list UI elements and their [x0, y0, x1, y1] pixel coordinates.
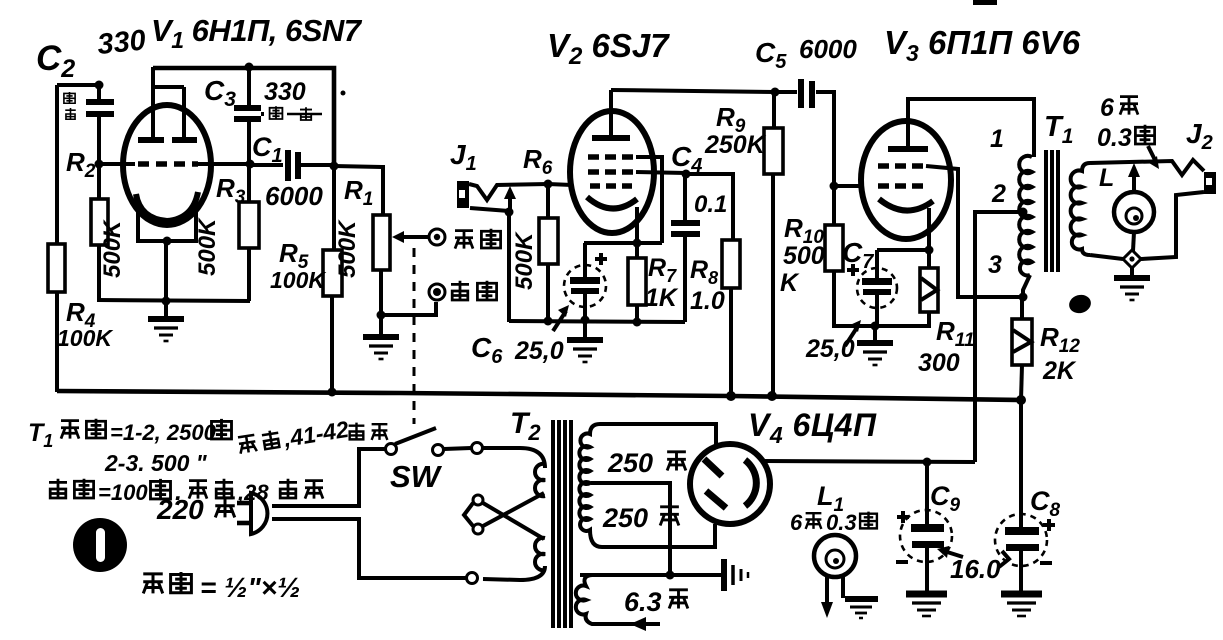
wire: HV center tap: [591, 483, 670, 575]
svg-text:2: 2: [991, 180, 1006, 208]
wire: C1 node to R1: [334, 166, 383, 215]
node: R5 rail junction: [328, 388, 337, 397]
svg-text:25,0: 25,0: [805, 335, 855, 363]
switch SW right contact: [472, 443, 483, 454]
svg-text:250: 250: [607, 448, 653, 478]
wire: C5 to V3 grid: [816, 92, 861, 186]
wire: HV top to V4 plate: [600, 424, 716, 446]
wire: V4 cathode B+ output: [763, 461, 975, 462]
node: J1 sleeve junction: [505, 208, 514, 217]
wire: C1 right to R5 column: [301, 163, 334, 167]
wire: R6 top lead: [546, 184, 550, 218]
V1 anode bars: [138, 137, 164, 143]
capacitor C2 plates: [86, 99, 114, 105]
svg-text:6: 6: [790, 510, 803, 535]
L1 left lead with arrow: [825, 576, 829, 604]
pilot lamp L: [1114, 192, 1154, 232]
arrow: 25,0 pointer to C6: [553, 311, 566, 331]
resistor R1 (volume pot): [373, 215, 390, 270]
capacitor C2 lead: [97, 85, 101, 99]
svg-text:6.3: 6.3: [624, 587, 662, 617]
wire: node to C1: [250, 163, 283, 167]
T2 bottom contact: [467, 573, 478, 584]
wire: suppressor tie to cathode: [636, 157, 662, 243]
node: speaker common diamond junction: [1123, 250, 1141, 268]
T2 primary bottom lead: [483, 566, 545, 580]
svg-text:0.1: 0.1: [694, 191, 727, 218]
V3 screen grid dashes: [878, 163, 926, 169]
capacitor C3 lead from rail: [247, 67, 251, 106]
J1 tip contact hook wire to R6 node: [469, 184, 548, 200]
wire: V3 anode lead to T1: [908, 99, 1034, 157]
wire: heater/ground bus: [580, 573, 722, 577]
jack J1 body: [457, 181, 469, 208]
svg-text:6: 6: [1100, 94, 1115, 122]
node: V3 grid / R10 junction: [830, 182, 839, 191]
node: R7 bottom: [633, 318, 642, 327]
T2 primary top lead: [483, 448, 545, 468]
wire: C4 bottom lead to bottom wire: [683, 237, 687, 322]
note line 1: T1 primary turns: [28, 419, 232, 451]
V3 anode bar: [888, 146, 928, 152]
wire: ground stem: [873, 326, 877, 340]
C9 polarity plus: [897, 511, 909, 523]
capacitor C1 plates: [285, 150, 291, 181]
note: wire gauge slanted: [237, 416, 350, 459]
resistor R6: [539, 218, 558, 264]
wire: T1 primary bottom to tap 3 node: [1023, 275, 1030, 297]
capacitor C9 plates (electrolytic): [911, 524, 944, 532]
svg-text:,28: ,28: [237, 480, 269, 505]
svg-text:V2 6SJ7: V2 6SJ7: [547, 27, 670, 70]
tube V2 envelope: [570, 111, 654, 233]
note: core size: [143, 572, 300, 603]
wire: R11 bottom to ground bus: [875, 312, 929, 326]
wire: C3 bottom to node: [247, 122, 251, 164]
node: C6 ground junction: [581, 316, 590, 325]
wire: ground stem J2: [1130, 268, 1134, 275]
wire: V1 left anode lead to top rail: [151, 67, 155, 140]
svg-text:=100: =100: [98, 480, 148, 505]
wire: R10 top lead: [832, 186, 836, 225]
V4 diode plate bars: [704, 459, 722, 476]
capacitor C6 top lead: [583, 243, 587, 278]
node: C9 junction on B+: [923, 458, 932, 467]
wire: left rail lower segment from R4 to bottom rail: [55, 292, 59, 392]
wire: R12 bottom to rail: [1021, 365, 1022, 400]
top edge mark: [973, 0, 997, 5]
V4 cathode arc: [745, 460, 756, 506]
note line 3: secondary turns: [49, 478, 323, 506]
capacitor C4 top lead: [683, 174, 687, 220]
wire: R2/R3 cathode bottom wire: [97, 300, 250, 301]
wire: ground stem C6: [583, 321, 587, 337]
wire: C7 bottom lead: [875, 295, 879, 326]
ground (V2 cathode circuit): [567, 340, 603, 362]
selector bracket: [464, 503, 473, 526]
arrow: 16.0 to C8: [999, 551, 1009, 567]
wire: R12 top lead: [1020, 297, 1024, 319]
wire: V3 cathode lead: [927, 208, 931, 250]
ground (speaker circuit): [1114, 278, 1150, 300]
svg-text:330: 330: [264, 78, 306, 106]
node: C1/R5/R1 junction: [330, 162, 339, 171]
svg-text:1K: 1K: [645, 284, 679, 312]
V2 anode bar: [592, 135, 630, 141]
wire: R10 bottom to ground bus: [834, 271, 875, 326]
node: C7/R10/R11 ground junction: [871, 322, 880, 331]
switch SW middle contact: [433, 445, 444, 456]
capacitor C8 top lead: [1019, 400, 1023, 528]
V1 cathode skirt: [138, 211, 196, 241]
V2 control grid dashes: [590, 183, 634, 189]
V2 cathode arc: [587, 197, 637, 209]
T2 6.3V winding: [576, 575, 598, 624]
wire: cathode to C7: [877, 248, 929, 252]
wire: C6 bottom lead: [583, 294, 587, 321]
R1 wiper arrow from red terminal: [398, 235, 428, 239]
C8 polarity minus: [1040, 561, 1052, 565]
C9 polarity minus: [896, 560, 908, 564]
wire: C9 bottom lead: [925, 548, 929, 593]
node: V2 cathode junction: [633, 239, 642, 248]
wire: R5 bottom to rail: [330, 296, 334, 392]
terminal: black binding post: [429, 284, 445, 300]
ink blob: [1067, 292, 1093, 315]
wire: cathode bus C6/R7: [584, 241, 662, 245]
pilot lamp L1: [814, 535, 856, 577]
wire: screen to T1 tap 3: [926, 166, 1022, 297]
capacitor C4 plates: [671, 220, 700, 226]
ground (V3 cathode circuit): [857, 343, 893, 365]
svg-text:L: L: [1099, 164, 1114, 192]
wire: C4 node to R8: [686, 174, 733, 240]
arrow: 6V 0.3A pointer: [1148, 146, 1156, 162]
wire: anode strap: [153, 85, 184, 89]
svg-text:V1 6Н1П, 6SN7: V1 6Н1П, 6SN7: [151, 13, 363, 53]
svg-text:100K: 100K: [57, 325, 113, 351]
wire: left rail upper segment down to R4: [55, 85, 59, 244]
capacitor C5 plates: [798, 79, 804, 108]
wire: V2 stage bottom wire: [509, 321, 685, 322]
wire: black terminal to R1 ground: [381, 302, 436, 315]
node: V2 anode / R9 / C5 junction: [771, 88, 780, 97]
T1 secondary winding: [1071, 163, 1090, 255]
svg-text:100K: 100K: [270, 267, 326, 293]
switch SW left contact: [386, 444, 397, 455]
wire: ground stem V1: [164, 301, 168, 316]
capacitor C6 plates (electrolytic): [570, 277, 600, 284]
wire: R9 bottom to rail: [771, 174, 775, 396]
plug prongs: [237, 501, 251, 506]
pilot lamp L arrow lead: [1132, 172, 1136, 191]
selector crossed wires: [483, 503, 544, 539]
svg-text:0.3: 0.3: [1097, 124, 1132, 152]
node: center tap ground junction: [666, 571, 675, 580]
svg-text:SW: SW: [390, 459, 443, 494]
wire: R7 bottom lead: [635, 305, 639, 322]
wire: secondary top to J2: [1090, 160, 1204, 175]
node: V1 cathode junction: [163, 237, 172, 246]
wire: R6 bottom lead: [546, 264, 550, 321]
C7 dashed outline: [857, 268, 897, 308]
wire: ground stem R1: [379, 315, 383, 334]
L1 right lead: [841, 576, 845, 598]
wire: V2 cathode lead: [635, 207, 639, 243]
label: black terminal text: [451, 281, 497, 300]
node: R8 rail junction: [726, 391, 736, 401]
voltage selector contacts: [473, 495, 483, 505]
wire: R3 top lead: [247, 164, 251, 202]
V1 grid dashed line: [138, 161, 198, 167]
wire: R3 bottom lead: [247, 248, 251, 301]
resistor R10: [825, 225, 843, 271]
svg-text:250: 250: [602, 503, 648, 533]
resistor R9: [764, 128, 783, 174]
terminal: red binding post: [429, 229, 445, 245]
jack J2 body: [1204, 172, 1216, 194]
C6 polarity plus: [595, 253, 607, 265]
ground (R1 / output common): [363, 337, 399, 359]
resistor R5: [323, 250, 342, 296]
T2 core laminations: [551, 420, 555, 628]
svg-text:.: .: [175, 478, 182, 506]
wire: C8 bottom lead: [1019, 551, 1023, 593]
ground (C9): [906, 594, 947, 616]
capacitor C7 plates (electrolytic): [862, 278, 892, 285]
resistor R7: [628, 258, 646, 305]
svg-text:6000: 6000: [265, 181, 323, 211]
capacitor C8 plates (electrolytic): [1005, 527, 1039, 535]
T1 core laminations: [1044, 150, 1048, 272]
ink speck: [341, 91, 346, 96]
svg-text:0.3: 0.3: [826, 510, 857, 535]
node: C2 top junction: [95, 81, 104, 90]
node: R6 bottom: [544, 317, 553, 326]
svg-text:K: K: [780, 269, 800, 297]
wire: R2 top lead: [97, 164, 101, 199]
wire: heater lead with arrow: [598, 622, 660, 626]
svg-text:2K: 2K: [1042, 357, 1077, 385]
node: C4 / screen junction: [682, 170, 691, 179]
T2 HV secondary winding: [579, 424, 602, 547]
J1 sleeve wire: [470, 208, 509, 322]
node: V3 cathode junction: [925, 246, 934, 255]
transformer T1 primary winding: [1019, 156, 1032, 276]
V3 control grid dashes: [878, 183, 926, 189]
capacitor C7 top lead: [875, 250, 879, 278]
wire: grid wire to V2: [548, 184, 572, 185]
main B+ bottom rail: [57, 391, 1021, 400]
wire: V2 anode to C5/R9 node: [611, 90, 775, 92]
wire: V1 right grid to C3 node: [198, 162, 250, 166]
wire: R8 bottom to rail: [729, 288, 733, 397]
svg-text:2-3. 500 ": 2-3. 500 ": [104, 450, 208, 476]
label: mica (yunmu) boxes for C2: [64, 92, 76, 119]
label: mica boxes for C3: [261, 106, 322, 120]
svg-text:500K: 500K: [99, 219, 126, 278]
node: R1 ground junction: [377, 311, 386, 320]
resistor R3: [239, 202, 259, 248]
svg-text:=1-2, 2500: =1-2, 2500: [110, 420, 217, 445]
wire: SW to T2 primary: [444, 448, 471, 449]
C8 polarity plus: [1043, 519, 1055, 531]
wire: HV bottom to V4 plate 2: [602, 524, 715, 547]
wire: mains cord upper: [272, 449, 385, 506]
C7 polarity plus: [847, 264, 859, 276]
capacitor C9 top lead: [925, 462, 929, 525]
wire: screen to C4 node: [636, 172, 686, 173]
label: red terminal text: [455, 229, 501, 249]
svg-text:300: 300: [918, 349, 960, 377]
V2 suppressor grid dashes: [588, 154, 636, 160]
C8 dashed outline: [995, 514, 1047, 566]
node: T1 tap 3 / R12 junction: [1019, 293, 1028, 302]
wire: R5 top lead: [332, 167, 336, 250]
V3 cathode arc: [879, 199, 933, 211]
T2 primary upper winding: [535, 464, 545, 496]
rectifier V4 envelope: [690, 444, 770, 524]
figure number badge: [73, 518, 127, 572]
wire: R7 top lead: [635, 243, 639, 258]
svg-text:V4 6Ц4П: V4 6Ц4П: [748, 407, 877, 448]
svg-text:3: 3: [988, 251, 1002, 279]
svg-text:6000: 6000: [799, 34, 857, 64]
capacitor C3 plates: [234, 105, 261, 111]
wire: mains cord lower: [272, 519, 466, 578]
wire: C5 left lead: [775, 90, 797, 94]
wire: R2 bottom lead: [97, 245, 101, 300]
node: R9 rail junction: [767, 391, 777, 401]
svg-text:25,0: 25,0: [514, 337, 564, 365]
svg-text:500K: 500K: [334, 219, 361, 278]
dashed mechanical link from R1 wiper to switch SW: [413, 248, 416, 424]
ground (L1): [845, 599, 878, 618]
resistor R4: [48, 244, 65, 292]
wire: R1 bottom lead: [379, 270, 383, 315]
arrow: 25,0 pointer to C7: [845, 326, 858, 346]
svg-text:500K: 500K: [194, 217, 221, 276]
C6 dashed outline: [564, 265, 606, 307]
switch SW lever: [395, 428, 436, 444]
svg-text:16.0: 16.0: [950, 554, 1001, 584]
node: rail end / C8 junction: [1016, 395, 1026, 405]
wire: cathode down to bottom wire: [164, 241, 168, 301]
node A: V1 grid / R2 / C2 junction: [95, 160, 104, 169]
wire: tap 2 to B+ riser: [975, 212, 1023, 462]
tube V1 envelope: [123, 105, 211, 225]
wire: lamp bottom lead: [1133, 232, 1134, 251]
V2 screen grid dashes: [588, 169, 636, 175]
wire: R9 top lead: [772, 92, 776, 128]
node: C3/C1/R3 junction: [246, 160, 255, 169]
wire: grid node to tube: [99, 162, 135, 166]
node: C3 top on rail: [245, 63, 254, 72]
svg-text:1: 1: [990, 125, 1004, 153]
svg-text:330: 330: [96, 24, 147, 61]
J2 sleeve wire: [1141, 192, 1204, 259]
svg-text:= ½"×½: = ½"×½: [200, 572, 300, 603]
T1 tap 2 node: [1019, 208, 1028, 217]
wire: V1 right anode lead: [182, 87, 186, 140]
node: cathode ground junction: [162, 297, 171, 306]
resistor R11: [920, 268, 938, 312]
ground (C8): [1001, 594, 1042, 616]
C9 dashed outline: [900, 510, 952, 562]
arrow: 16.0 to C9: [944, 551, 963, 557]
svg-text:500K: 500K: [511, 231, 538, 290]
V1 cathode arcs: [136, 192, 198, 221]
wire: secondary bottom to junction: [1090, 255, 1123, 259]
ground (V1 cathode): [148, 319, 184, 341]
resistor R8: [722, 240, 740, 288]
svg-text:1.0: 1.0: [690, 287, 725, 315]
wire: top rail to C3/R5 corner: [153, 68, 334, 167]
ground (power supply, sideways): [724, 559, 748, 591]
node: R6 top / grid junction: [544, 180, 553, 189]
T2 primary lower winding: [535, 538, 545, 570]
resistor R12: [1012, 319, 1032, 365]
mains plug: [251, 493, 267, 534]
svg-text:500: 500: [783, 242, 825, 270]
resistor R2: [91, 199, 108, 245]
svg-text:250K: 250K: [704, 131, 767, 159]
wire: C2 bottom to grid node: [97, 117, 101, 164]
wire: R11 leads and bottom tie: [927, 250, 931, 268]
tube V3 envelope: [861, 121, 951, 239]
J1 contact arrow: [508, 197, 512, 212]
wire: V2 anode lead up: [609, 90, 613, 138]
wire: top-left horizontal from left rail to C2 top: [57, 83, 99, 87]
